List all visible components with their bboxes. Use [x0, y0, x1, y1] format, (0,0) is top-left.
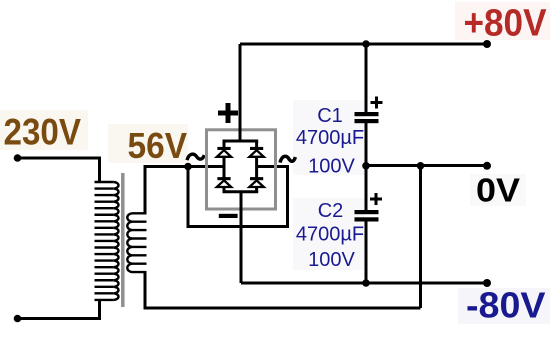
- svg-text:C2: C2: [318, 200, 344, 222]
- background tint around C1 labels: [293, 100, 365, 175]
- bridge left branch wire: [223, 141, 226, 192]
- svg-text:C1: C1: [317, 105, 343, 127]
- wire bridge + riser: [239, 44, 242, 141]
- capacitor C1 polarity +: [371, 97, 383, 109]
- svg-text:230V: 230V: [4, 111, 82, 153]
- wire 0V riser: [419, 166, 422, 308]
- node AC junction dot: [184, 163, 192, 171]
- label minus (bridge minus): [219, 214, 238, 218]
- diode D1 top-left: [217, 147, 231, 157]
- bridge top rail: [223, 140, 259, 143]
- terminal dot -80V: [483, 279, 491, 287]
- node dot top rail / C1: [362, 40, 370, 48]
- background tint around 56V: [108, 124, 188, 163]
- capacitor C2 plates: [355, 210, 379, 222]
- capacitor C2 bottom wire: [365, 222, 368, 284]
- svg-text:100V: 100V: [308, 156, 355, 178]
- diode D3 bottom-left: [217, 177, 231, 187]
- svg-text:100V: 100V: [308, 249, 355, 271]
- label tilde left: [187, 154, 204, 160]
- svg-text:+80V: +80V: [464, 3, 548, 45]
- primary top terminal dot: [14, 154, 22, 162]
- svg-text:-80V: -80V: [466, 285, 546, 326]
- label + (bridge plus): [218, 103, 238, 123]
- capacitor C2 polarity +: [370, 193, 382, 205]
- background tint around 0V: [470, 174, 526, 206]
- top rail +80V: [240, 43, 487, 46]
- bridge right branch wire: [255, 141, 258, 192]
- svg-text:56V: 56V: [128, 125, 188, 166]
- background tint around C2 labels: [293, 198, 365, 270]
- bridge bottom rail: [223, 190, 259, 193]
- svg-text:4700µF: 4700µF: [296, 127, 364, 149]
- terminal dot +80V: [483, 40, 491, 48]
- wire primary bottom: [18, 300, 100, 319]
- wire secondary top to bridge AC1: [145, 167, 224, 215]
- terminal dot 0V: [483, 162, 491, 170]
- transformer primary winding: [95, 182, 119, 300]
- background tint around -80V: [458, 288, 550, 324]
- wire AC link (shorting ~ terminals): [188, 167, 288, 227]
- diode D2 top-right: [249, 147, 263, 157]
- wire bridge minus output: [240, 192, 243, 283]
- minus rail: [241, 282, 487, 285]
- diode D4 bottom-right: [249, 177, 263, 187]
- label tilde right: [280, 156, 295, 162]
- transformer core: [121, 173, 125, 307]
- bridge rectifier box: [207, 130, 276, 209]
- background tint around +80V: [455, 2, 550, 40]
- node dot 0V / secondary return: [417, 162, 425, 170]
- 0V rail: [366, 164, 487, 167]
- svg-text:4700µF: 4700µF: [296, 224, 364, 246]
- capacitor C1 bottom wire: [365, 123, 368, 166]
- wire secondary bottom return: [145, 272, 421, 309]
- primary bottom terminal dot: [14, 315, 22, 323]
- node dot minus rail / C2: [362, 279, 370, 287]
- svg-text:0V: 0V: [476, 172, 520, 209]
- capacitor C1 top wire: [365, 44, 368, 112]
- node dot 0V / C1-C2: [362, 162, 370, 170]
- capacitor C1 plates: [355, 112, 379, 123]
- capacitor C2 top wire: [365, 166, 368, 210]
- wire primary top: [18, 158, 100, 182]
- transformer secondary winding: [127, 213, 146, 272]
- background tint around 230V: [0, 110, 88, 150]
